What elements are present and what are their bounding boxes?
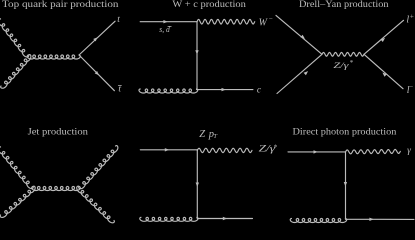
arrow on t line xyxy=(93,37,97,41)
arrow on vertical propagator xyxy=(196,183,199,187)
arrow on upper-left quark xyxy=(300,35,305,39)
arrow on vertical propagator xyxy=(344,182,347,186)
arrow on outgoing quark xyxy=(369,218,373,221)
antiquark line (incoming, lower-left) xyxy=(277,54,322,93)
svg-text:+: + xyxy=(410,13,414,21)
Z/gamma* boson wavy line xyxy=(322,52,364,56)
arrow on c line xyxy=(222,88,226,91)
arrow on incoming quark xyxy=(163,20,167,23)
arrow on l- line xyxy=(382,73,386,77)
arrow on incoming quark xyxy=(314,150,318,153)
quark propagator (vertical) xyxy=(196,150,198,219)
charm quark line c (outgoing) xyxy=(197,89,253,91)
gluon g2 (incoming, lower-left) xyxy=(1,55,31,89)
svg-text:*: * xyxy=(274,143,278,152)
Z/gamma* wavy line xyxy=(197,148,252,152)
overline of tbar xyxy=(118,85,121,87)
arrow on outgoing quark xyxy=(223,217,227,220)
quark line (incoming, upper-left) xyxy=(276,15,322,54)
arrow on vertical propagator xyxy=(195,50,198,54)
quark line t (outgoing) xyxy=(79,21,115,55)
svg-text:γ: γ xyxy=(407,146,411,156)
photon wavy line xyxy=(346,150,401,154)
gluon (outgoing, lower-right) xyxy=(77,186,115,223)
quark line s,dbar (incoming) xyxy=(140,21,197,23)
svg-text:Direct photon production: Direct photon production xyxy=(293,127,397,137)
arrow on tbar line xyxy=(95,71,99,75)
svg-text:t: t xyxy=(118,85,121,95)
overline of d xyxy=(168,25,171,27)
quark propagator (vertical) xyxy=(196,22,198,90)
svg-text:Z/γ: Z/γ xyxy=(333,60,349,70)
arrow on lower-left antiquark xyxy=(304,71,309,75)
quark line (outgoing, bottom) xyxy=(346,218,415,220)
svg-text:Top quark pair production: Top quark pair production xyxy=(2,0,119,9)
gluon (outgoing, upper-right) xyxy=(79,146,118,189)
W boson wavy line xyxy=(197,19,255,24)
antiquark line tbar (outgoing) xyxy=(79,55,114,91)
quark line (incoming, left) xyxy=(288,151,346,153)
quark propagator (vertical) xyxy=(345,152,347,219)
lepton line l+ (outgoing, upper-right) xyxy=(364,20,404,54)
svg-text:*: * xyxy=(350,59,354,67)
gluon (incoming, lower-left) xyxy=(140,217,198,221)
arrow on l+ line xyxy=(381,38,386,42)
gluon propagator (horizontal) xyxy=(32,187,81,191)
svg-text:Z: Z xyxy=(199,129,205,140)
quark line (outgoing, bottom) xyxy=(197,218,252,220)
gluon (incoming, lower-left) xyxy=(0,186,35,217)
gluon (incoming, upper-left) xyxy=(0,147,33,189)
gluon (incoming, lower-left) xyxy=(290,219,347,223)
gluon g1 (incoming, upper-left) xyxy=(0,19,29,58)
svg-text:−: − xyxy=(269,15,273,23)
gluon (incoming, lower-left) xyxy=(139,89,198,93)
svg-text:T: T xyxy=(213,133,217,140)
gluon propagator g3 xyxy=(27,55,80,59)
lepton line l- (outgoing, lower-right) xyxy=(364,54,403,88)
svg-text:−: − xyxy=(409,83,413,91)
svg-text:W + c production: W + c production xyxy=(172,0,246,9)
svg-text:t: t xyxy=(117,15,120,25)
svg-text:Drell–Yan production: Drell–Yan production xyxy=(299,0,389,9)
svg-text:Jet production: Jet production xyxy=(28,127,89,137)
quark line (incoming, left) xyxy=(140,149,197,151)
arrow on incoming quark xyxy=(165,148,169,151)
